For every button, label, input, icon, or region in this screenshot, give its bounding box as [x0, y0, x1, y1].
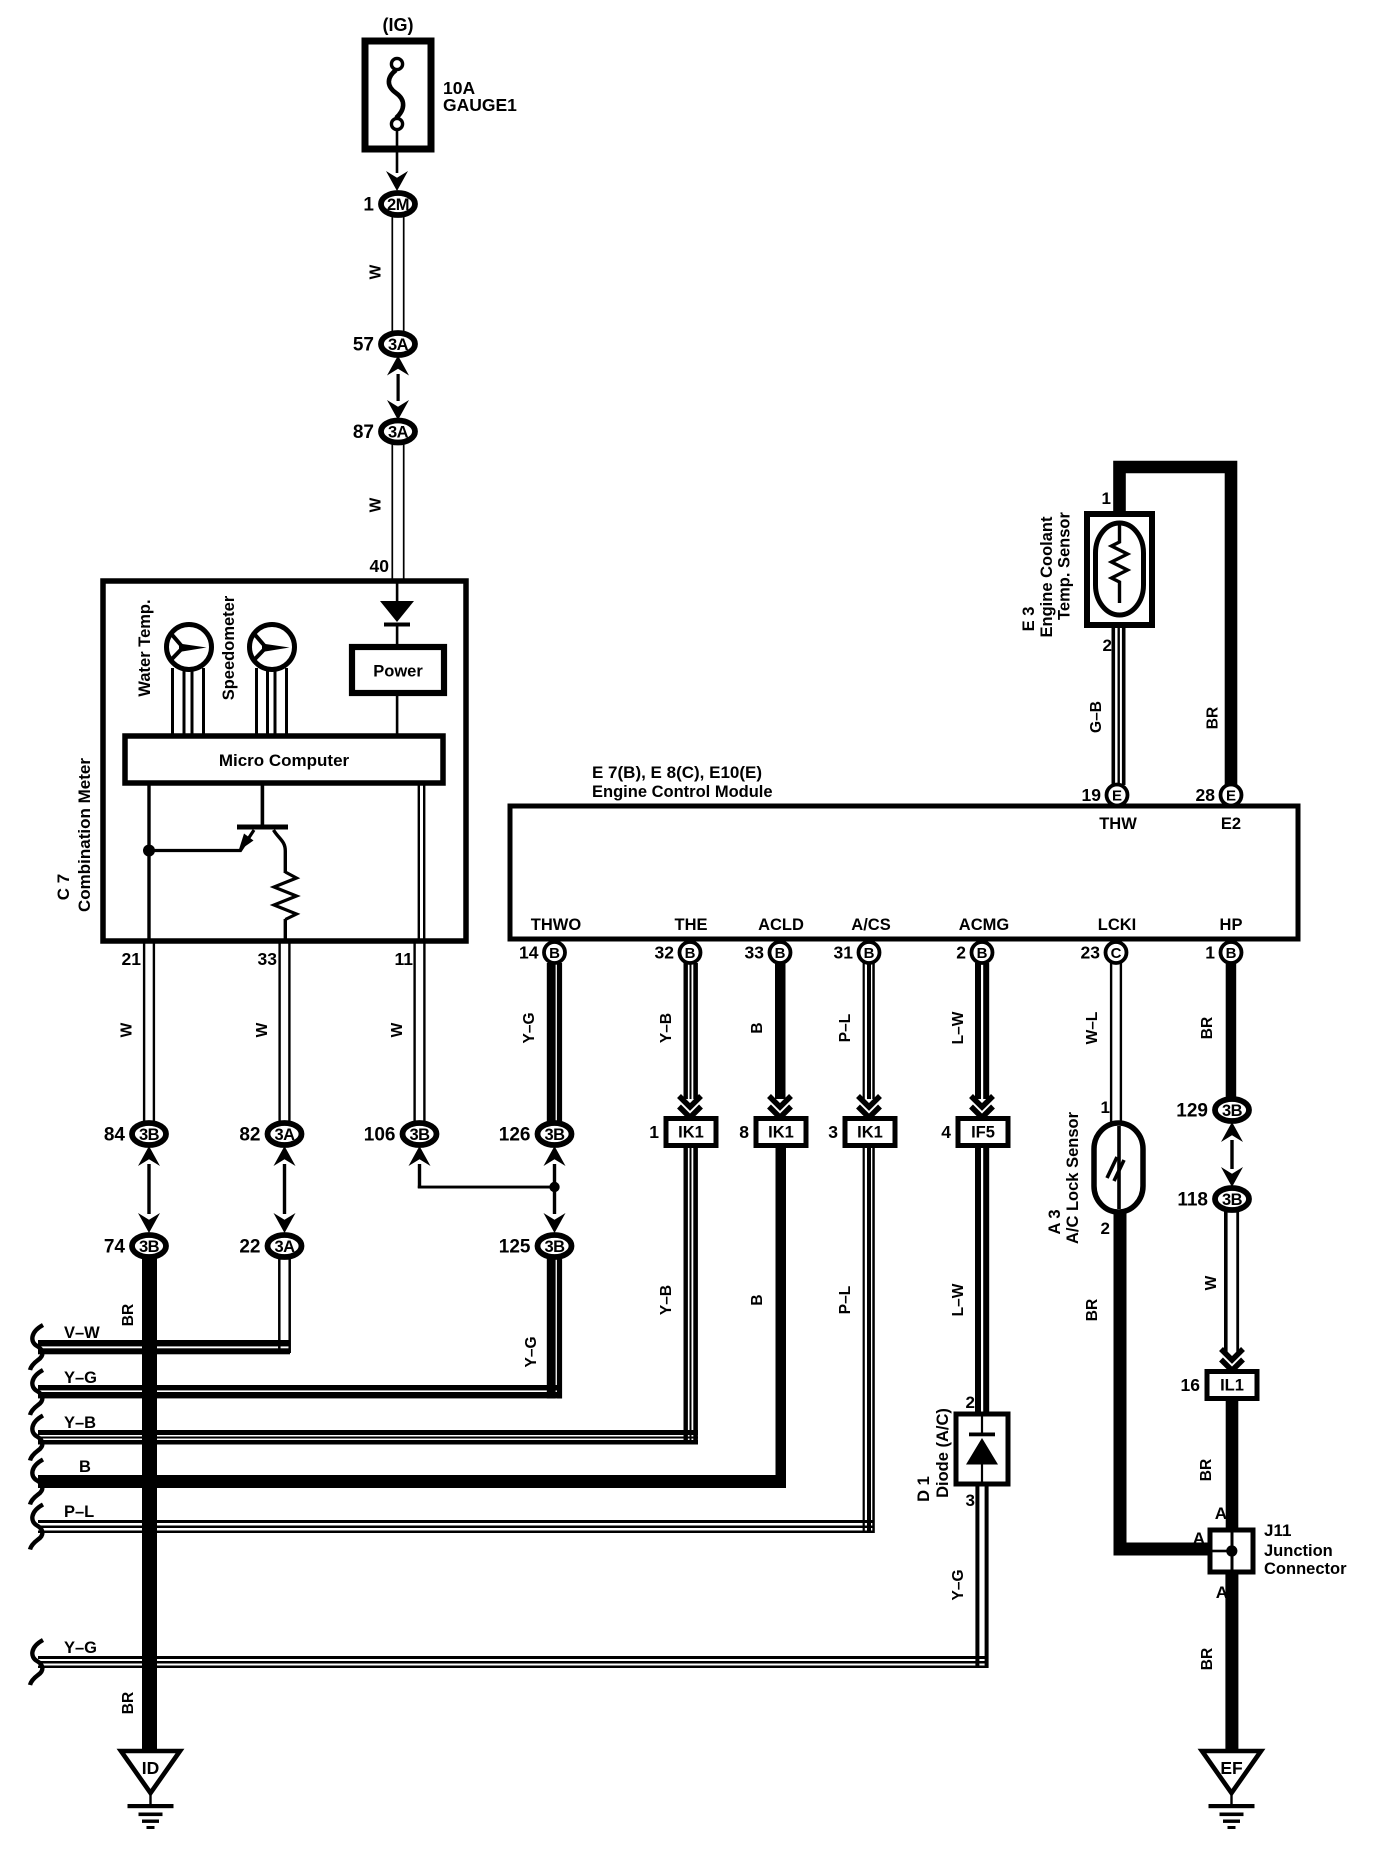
- svg-text:IK1: IK1: [768, 1124, 794, 1142]
- svg-text:33: 33: [258, 949, 278, 969]
- svg-text:THW: THW: [1099, 815, 1137, 833]
- harness squiggle Y-G 2: [30, 1640, 43, 1685]
- svg-text:E2: E2: [1221, 815, 1241, 833]
- svg-text:BR: BR: [120, 1692, 137, 1714]
- svg-text:E 7(B), E 8(C), E10(E): E 7(B), E 8(C), E10(E): [592, 763, 762, 782]
- svg-text:Speedometer: Speedometer: [220, 595, 238, 700]
- wire 22-3A to V-W harness: [278, 1257, 281, 1353]
- harness squiggle V-W: [30, 1325, 43, 1370]
- wire P-L harness: [38, 1520, 874, 1523]
- svg-text:1: 1: [1102, 489, 1111, 508]
- svg-text:HP: HP: [1220, 916, 1243, 934]
- water temp gauge leads: [171, 668, 174, 736]
- diode D1 box: [956, 1414, 1008, 1484]
- connector 3 IK1: [828, 1119, 895, 1146]
- wire 129-118: [1230, 1140, 1233, 1169]
- wire 82-22: [283, 1164, 286, 1214]
- svg-text:W: W: [368, 264, 385, 279]
- pin 23 (C) LCKI: [1081, 942, 1127, 963]
- A/C lock sensor A3: [1094, 1123, 1143, 1212]
- svg-text:Y–B: Y–B: [658, 1285, 675, 1315]
- svg-text:Temp. Sensor: Temp. Sensor: [1056, 511, 1074, 619]
- svg-text:Engine Control Module: Engine Control Module: [592, 783, 773, 801]
- svg-text:BR: BR: [120, 1304, 137, 1326]
- svg-text:21: 21: [122, 949, 142, 969]
- svg-text:B: B: [549, 945, 560, 962]
- arrow down into 22: [274, 1213, 296, 1233]
- pin 19 (E) THW: [1082, 785, 1128, 806]
- svg-text:P–L: P–L: [837, 1014, 854, 1042]
- svg-text:129: 129: [1176, 1101, 1208, 1122]
- svg-text:BR: BR: [1199, 1017, 1216, 1039]
- harness squiggle P-L: [30, 1505, 43, 1550]
- svg-text:3B: 3B: [409, 1126, 430, 1144]
- wire BR A3 to J11: [1114, 1212, 1127, 1555]
- svg-text:E: E: [1112, 788, 1122, 805]
- harness squiggle B: [30, 1460, 43, 1505]
- svg-text:Micro Computer: Micro Computer: [219, 751, 350, 770]
- svg-text:3B: 3B: [139, 1126, 160, 1144]
- svg-text:2: 2: [956, 943, 966, 963]
- svg-text:23: 23: [1081, 943, 1101, 963]
- wire P-L below IK1: [863, 1146, 865, 1534]
- svg-text:IK1: IK1: [857, 1124, 883, 1142]
- wire B harness: [38, 1475, 786, 1488]
- connector 4 IF5: [941, 1119, 1008, 1146]
- wire W 2M to 57-3A: [391, 216, 393, 333]
- connector arrow up into 57: [387, 356, 409, 376]
- connector 22 (3A): [239, 1235, 301, 1258]
- svg-text:Y–G: Y–G: [950, 1569, 967, 1600]
- svg-text:D 1: D 1: [915, 1476, 933, 1502]
- svg-text:B: B: [1226, 945, 1237, 962]
- svg-text:31: 31: [834, 943, 854, 963]
- pin 2 (B) ACMG: [956, 942, 992, 963]
- junction dot: [143, 845, 155, 857]
- svg-text:Y–G: Y–G: [523, 1336, 540, 1367]
- svg-text:3A: 3A: [274, 1238, 295, 1256]
- svg-text:G–B: G–B: [1088, 701, 1105, 733]
- svg-text:EF: EF: [1220, 1758, 1243, 1778]
- svg-text:GAUGE1: GAUGE1: [443, 95, 517, 115]
- svg-text:BR: BR: [1084, 1299, 1101, 1321]
- svg-text:1: 1: [1205, 943, 1215, 963]
- wire V-W harness: [38, 1340, 290, 1346]
- svg-text:Water Temp.: Water Temp.: [136, 599, 154, 696]
- wire W pin21 to 84-3B: [143, 941, 145, 1124]
- svg-text:1: 1: [649, 1122, 659, 1142]
- svg-text:2M: 2M: [387, 196, 409, 214]
- connector 87 (3A): [353, 421, 415, 444]
- wire Y-G harness: [38, 1385, 561, 1390]
- svg-text:19: 19: [1082, 785, 1102, 805]
- arrow into IK1-8: [769, 1096, 791, 1118]
- wire micro computer right leg: [418, 783, 420, 941]
- wire 106 elbow to junction: [418, 1164, 421, 1188]
- connector arrow into 2M: [386, 171, 408, 191]
- arrow up into 126: [544, 1146, 566, 1166]
- svg-text:IF5: IF5: [971, 1124, 995, 1142]
- svg-text:THE: THE: [675, 916, 708, 934]
- svg-text:THWO: THWO: [531, 916, 582, 934]
- svg-text:3B: 3B: [139, 1238, 160, 1256]
- junction node: [549, 1182, 559, 1192]
- svg-text:84: 84: [104, 1125, 126, 1146]
- connector 1 IK1: [649, 1119, 716, 1146]
- wire loop E3 pin1 to ECM 28E: [1120, 467, 1232, 785]
- wire resistor to pin 33: [284, 919, 287, 941]
- svg-text:A: A: [1193, 1529, 1205, 1548]
- wire Y-G below D1: [975, 1484, 979, 1668]
- sensor resistor element: [1112, 525, 1128, 603]
- svg-text:A 3: A 3: [1046, 1209, 1064, 1234]
- svg-text:P–L: P–L: [64, 1503, 94, 1521]
- svg-text:118: 118: [1177, 1190, 1208, 1211]
- svg-text:3B: 3B: [1222, 1191, 1243, 1209]
- diode D1 symbol: [981, 1416, 983, 1434]
- wire Y-B harness: [38, 1430, 698, 1435]
- wire W 118 to IL1: [1224, 1210, 1228, 1352]
- wire B below IK1: [776, 1146, 787, 1489]
- svg-text:ACLD: ACLD: [758, 916, 804, 934]
- arrow up into 84: [138, 1146, 160, 1166]
- connector 84 (3B): [104, 1123, 166, 1146]
- arrow into IL1-16: [1221, 1349, 1243, 1371]
- svg-text:B: B: [775, 945, 786, 962]
- wire BR IL1 to J11: [1226, 1399, 1239, 1531]
- wire BR 74 to ID ground: [142, 1257, 157, 1751]
- wire BR J11 to EF ground: [1225, 1572, 1238, 1751]
- svg-text:3: 3: [828, 1122, 838, 1142]
- ground ID: [121, 1751, 180, 1829]
- svg-text:C: C: [1111, 945, 1122, 962]
- connector 8 IK1: [739, 1119, 806, 1146]
- arrow into IK1-3: [858, 1096, 880, 1118]
- pin 28 (E) E2: [1196, 785, 1242, 806]
- svg-text:Y–B: Y–B: [64, 1414, 96, 1432]
- svg-text:IL1: IL1: [1220, 1377, 1244, 1395]
- svg-text:22: 22: [239, 1237, 260, 1258]
- svg-text:B: B: [864, 945, 875, 962]
- wire L-W below IF5: [975, 1146, 981, 1415]
- svg-text:1: 1: [1101, 1098, 1110, 1117]
- svg-text:B: B: [79, 1458, 91, 1476]
- svg-text:125: 125: [499, 1237, 531, 1258]
- wire Y-B below IK1: [684, 1146, 688, 1445]
- svg-text:1: 1: [363, 195, 374, 216]
- harness squiggle Y-G: [30, 1370, 43, 1415]
- svg-text:LCKI: LCKI: [1098, 916, 1137, 934]
- ground EF: [1202, 1751, 1261, 1829]
- connector 57 (3A): [353, 333, 415, 356]
- svg-text:3B: 3B: [544, 1126, 565, 1144]
- svg-text:Junction: Junction: [1264, 1542, 1333, 1560]
- wire 126 to junction: [553, 1164, 556, 1188]
- svg-text:Connector: Connector: [1264, 1560, 1347, 1578]
- water temp gauge: [167, 625, 212, 670]
- arrow up into 106: [409, 1146, 431, 1166]
- svg-text:82: 82: [239, 1125, 260, 1146]
- arrow up into 129: [1221, 1122, 1243, 1142]
- arrow down into 74: [138, 1213, 160, 1233]
- wire L-W ACMG: [975, 963, 981, 1099]
- micro computer box: [125, 736, 443, 783]
- svg-text:3A: 3A: [274, 1126, 295, 1144]
- wire Y-B THE: [684, 963, 688, 1099]
- connector 129 (3B): [1176, 1099, 1249, 1122]
- wire pin40 into meter: [396, 583, 399, 602]
- connector 74 (3B): [104, 1235, 166, 1258]
- svg-text:2: 2: [1103, 636, 1112, 655]
- svg-text:BR: BR: [1205, 707, 1222, 729]
- connector 118 (3B): [1177, 1188, 1249, 1211]
- svg-text:B: B: [977, 945, 988, 962]
- pin 1 (B) HP: [1205, 942, 1241, 963]
- wire W pin33 to 82-3A: [278, 941, 280, 1124]
- wire micro computer left leg: [147, 783, 150, 941]
- svg-text:40: 40: [370, 556, 390, 576]
- svg-text:A: A: [1215, 1504, 1227, 1523]
- svg-text:B: B: [685, 945, 696, 962]
- svg-text:P–L: P–L: [837, 1286, 854, 1314]
- svg-text:Diode (A/C): Diode (A/C): [934, 1408, 952, 1498]
- wire G-B E3 to 19E: [1112, 625, 1116, 785]
- svg-text:C 7: C 7: [54, 874, 73, 900]
- svg-text:57: 57: [353, 335, 374, 356]
- svg-text:Y–G: Y–G: [64, 1639, 97, 1657]
- wire Y-G THWO to 126: [547, 963, 556, 1124]
- svg-text:L–W: L–W: [950, 1011, 967, 1044]
- wire fuse to connector 2M: [396, 129, 399, 173]
- svg-text:14: 14: [519, 943, 539, 963]
- resistor (meter): [274, 872, 297, 920]
- wire W pin11 to 106-3B: [413, 941, 415, 1124]
- svg-text:87: 87: [353, 422, 374, 443]
- speedometer gauge leads: [255, 668, 258, 736]
- wire BR HP to 129: [1226, 963, 1237, 1099]
- svg-text:W: W: [254, 1022, 271, 1037]
- wire B ACLD: [775, 963, 786, 1099]
- svg-text:(IG): (IG): [383, 15, 414, 35]
- svg-text:4: 4: [941, 1122, 951, 1142]
- wire 57 to 87: [397, 374, 400, 401]
- pin 31 (B) A/CS: [834, 942, 880, 963]
- svg-text:74: 74: [104, 1237, 126, 1258]
- arrow down into 118: [1221, 1167, 1243, 1187]
- wire power to micro computer: [396, 693, 399, 736]
- pin 33 (B) ACLD: [745, 942, 791, 963]
- fuse element symbol: [389, 58, 403, 129]
- svg-text:Y–G: Y–G: [521, 1012, 538, 1043]
- svg-text:B: B: [749, 1294, 766, 1305]
- svg-text:IK1: IK1: [678, 1124, 704, 1142]
- svg-text:106: 106: [364, 1125, 396, 1146]
- wire Y-G harness 2: [38, 1656, 987, 1659]
- svg-text:V–W: V–W: [64, 1324, 100, 1342]
- svg-text:A/CS: A/CS: [851, 916, 890, 934]
- transistor Q (meter output): [149, 783, 288, 873]
- svg-text:Engine Coolant: Engine Coolant: [1038, 516, 1056, 638]
- fuse F1 10A GAUGE1 box: [365, 41, 431, 149]
- connector arrow down into 87: [387, 400, 409, 420]
- diode (meter power): [380, 601, 414, 622]
- svg-text:W: W: [389, 1022, 406, 1037]
- power unit box: [352, 647, 444, 693]
- svg-text:3A: 3A: [388, 423, 409, 441]
- svg-text:ACMG: ACMG: [959, 916, 1009, 934]
- junction connector J11 box: [1210, 1530, 1253, 1572]
- svg-text:E 3: E 3: [1020, 607, 1038, 632]
- svg-text:W–L: W–L: [1084, 1012, 1101, 1045]
- svg-text:2: 2: [1101, 1219, 1110, 1238]
- svg-text:J11: J11: [1264, 1521, 1291, 1540]
- svg-text:28: 28: [1196, 785, 1216, 805]
- arrow down into 125: [544, 1213, 566, 1233]
- svg-text:33: 33: [745, 943, 765, 963]
- svg-text:3: 3: [966, 1491, 975, 1510]
- svg-text:Y–G: Y–G: [64, 1369, 97, 1387]
- svg-text:A/C Lock Sensor: A/C Lock Sensor: [1064, 1111, 1082, 1244]
- engine coolant temp sensor E3 box: [1087, 514, 1152, 625]
- wire 84-74: [147, 1164, 150, 1214]
- arrow into IK1-1: [679, 1096, 701, 1118]
- combination meter C7 box: [103, 581, 466, 941]
- connector 106 (3B): [364, 1123, 437, 1146]
- wire junction to 125: [553, 1187, 556, 1214]
- svg-text:W: W: [119, 1022, 136, 1037]
- svg-text:W: W: [1203, 1275, 1220, 1290]
- arrow up into 82: [274, 1146, 296, 1166]
- pin 14 (B) THWO: [519, 942, 565, 963]
- svg-text:Combination Meter: Combination Meter: [75, 758, 94, 912]
- speedometer gauge: [250, 625, 295, 670]
- svg-text:11: 11: [395, 949, 414, 969]
- connector 1 (2M): [363, 193, 415, 216]
- connector 16 IL1: [1181, 1372, 1257, 1399]
- harness squiggle Y-B: [30, 1416, 43, 1461]
- svg-text:B: B: [749, 1022, 766, 1033]
- svg-text:126: 126: [499, 1125, 531, 1146]
- connector 126 (3B): [499, 1123, 572, 1146]
- svg-text:BR: BR: [1199, 1648, 1216, 1670]
- svg-text:2: 2: [966, 1393, 975, 1412]
- connector 82 (3A): [239, 1123, 301, 1146]
- svg-text:ID: ID: [142, 1758, 160, 1778]
- svg-text:Y–B: Y–B: [658, 1013, 675, 1043]
- connector 125 (3B): [499, 1235, 572, 1258]
- svg-text:3A: 3A: [388, 336, 409, 354]
- svg-text:BR: BR: [1198, 1459, 1215, 1481]
- pin 32 (B) THE: [655, 942, 701, 963]
- arrow into IF5-4: [971, 1096, 993, 1118]
- wire 125 to Y-G harness: [547, 1257, 556, 1399]
- wire W-L LCKI: [1110, 963, 1112, 1126]
- svg-text:3B: 3B: [1222, 1102, 1243, 1120]
- svg-text:8: 8: [739, 1122, 749, 1142]
- wire W 87 to combination meter: [391, 443, 393, 581]
- svg-text:3B: 3B: [544, 1238, 565, 1256]
- svg-text:16: 16: [1181, 1375, 1201, 1395]
- engine control module box: [510, 806, 1298, 939]
- wire P-L A/CS: [863, 963, 865, 1099]
- svg-text:Power: Power: [373, 663, 423, 681]
- svg-text:32: 32: [655, 943, 675, 963]
- svg-text:W: W: [368, 497, 385, 512]
- svg-text:E: E: [1226, 788, 1236, 805]
- svg-text:L–W: L–W: [950, 1283, 967, 1316]
